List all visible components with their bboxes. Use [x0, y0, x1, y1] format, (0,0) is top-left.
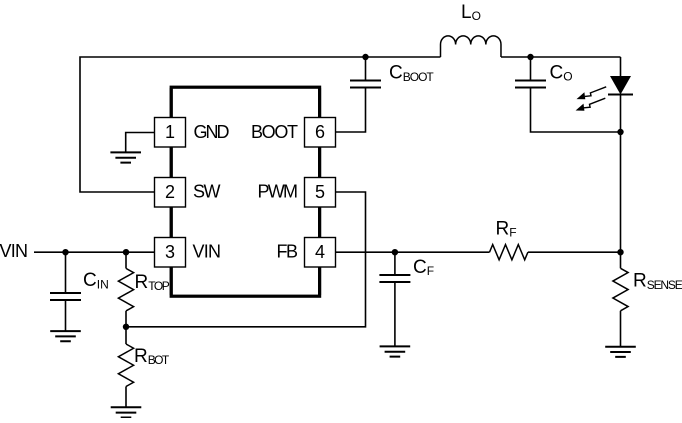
- svg-text:LO: LO: [461, 2, 481, 23]
- svg-text:6: 6: [315, 122, 325, 142]
- svg-text:RTOP: RTOP: [135, 272, 170, 293]
- capacitor CIN: [50, 252, 109, 331]
- svg-text:VIN: VIN: [0, 241, 28, 261]
- pin 1 GND: [155, 118, 186, 148]
- svg-text:BOOT: BOOT: [251, 122, 298, 142]
- capacitor CF: [379, 252, 434, 346]
- node: SW/CBOOT junction: [362, 54, 368, 60]
- svg-text:RBOT: RBOT: [134, 346, 170, 367]
- op-amp U1 IC body: [171, 87, 319, 296]
- wire: VIN input rail to pin 3: [34, 251, 155, 253]
- wire: divider junction to PWM pin 5: [126, 192, 366, 327]
- resistor RBOT: [118, 327, 169, 408]
- svg-text:4: 4: [315, 242, 325, 262]
- ground (CF): [380, 346, 411, 356]
- svg-text:SW: SW: [193, 182, 221, 202]
- LED D1: [576, 76, 633, 132]
- pin 6 BOOT: [305, 118, 336, 148]
- svg-text:3: 3: [165, 242, 175, 262]
- wire: pin stubs left: [170, 88, 173, 295]
- wire: RF to sense node: [528, 251, 621, 253]
- wire: FB pin 4 to RF: [336, 251, 490, 253]
- svg-text:5: 5: [315, 182, 325, 202]
- svg-text:VIN: VIN: [193, 242, 222, 262]
- inductor LO: [441, 2, 501, 57]
- ground (RSENSE): [605, 347, 636, 357]
- wire: pin stubs right: [318, 88, 321, 295]
- wire: LED cathode down to sense node: [620, 132, 622, 252]
- svg-text:RF: RF: [496, 219, 517, 240]
- svg-text:CBOOT: CBOOT: [389, 63, 434, 84]
- pin 2 SW: [155, 178, 186, 208]
- svg-text:GND: GND: [194, 122, 230, 142]
- node: CO bottom / LED cathode junction: [617, 129, 623, 135]
- node: LO/CO junction: [527, 54, 533, 60]
- wire: inductor to LED anode corner: [501, 56, 621, 58]
- capacitor CBOOT: [336, 57, 435, 132]
- svg-text:CIN: CIN: [83, 270, 109, 291]
- node: RTOP tap: [123, 249, 129, 255]
- svg-text:2: 2: [165, 182, 175, 202]
- svg-text:PWM: PWM: [258, 182, 299, 202]
- svg-text:RSENSE: RSENSE: [633, 271, 682, 292]
- ground (RBOT): [111, 407, 142, 417]
- ground (pin 1): [110, 152, 141, 162]
- node: RF / RSENSE / LED junction: [617, 249, 623, 255]
- svg-text:CF: CF: [413, 257, 434, 278]
- svg-text:CO: CO: [550, 62, 573, 83]
- svg-text:FB: FB: [277, 242, 299, 262]
- resistor RSENSE: [613, 252, 682, 347]
- wire: pin 1 to ground: [126, 133, 155, 153]
- wire: LED column top: [620, 57, 622, 76]
- node: CIN tap: [62, 249, 68, 255]
- pin 4 FB: [305, 238, 336, 268]
- svg-text:1: 1: [165, 122, 175, 142]
- ground (CIN): [50, 331, 81, 341]
- pin 3 VIN: [155, 238, 186, 268]
- pin 5 PWM: [305, 178, 336, 208]
- capacitor CO: [515, 57, 621, 132]
- node: CF tap: [392, 249, 398, 255]
- wire: SW pin 2 to top-left loop and top rail to inductor: [80, 57, 441, 192]
- resistor RTOP: [118, 252, 169, 327]
- resistor RF: [490, 219, 528, 260]
- node: feedback divider junction: [123, 324, 129, 330]
